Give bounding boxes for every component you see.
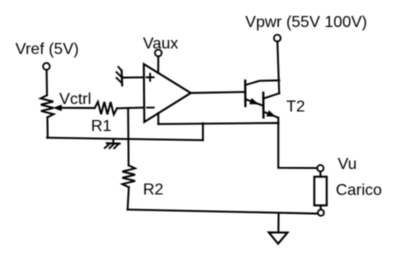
bottom rail wire bbox=[128, 210, 318, 214]
feedback wire to emitter node bbox=[158, 123, 278, 124]
plus sign bbox=[147, 74, 154, 81]
wiper arrow of potentiometer bbox=[61, 107, 95, 109]
wire Vaux to op-amp top bbox=[157, 57, 159, 73]
terminal Vref bbox=[43, 63, 50, 70]
wire op-amp output to T1 base bbox=[191, 92, 245, 93]
potentiometer P1 bbox=[41, 95, 54, 117]
wire Vpwr rail bbox=[277, 42, 279, 94]
lower rail wire bbox=[47, 138, 203, 141]
vertical wire feedback to lower rail bbox=[202, 123, 204, 140]
wire Vref to potentiometer bbox=[46, 70, 48, 95]
T2 emitter bbox=[264, 112, 279, 118]
node A vertical wire to R2 bbox=[127, 108, 130, 165]
svg-text:R1: R1 bbox=[91, 118, 112, 135]
terminal Vpwr bbox=[274, 35, 281, 42]
earth ground at + input bbox=[117, 67, 123, 86]
svg-text:Vpwr (55V 100V): Vpwr (55V 100V) bbox=[245, 14, 367, 31]
op-amp U1 bbox=[144, 64, 191, 122]
svg-text:Carico: Carico bbox=[336, 182, 382, 199]
wire ground to + input bbox=[122, 76, 144, 78]
svg-text:Vu: Vu bbox=[338, 156, 357, 173]
wire load bottom bbox=[320, 205, 322, 209]
svg-text:T2: T2 bbox=[286, 98, 305, 115]
resistor R1 bbox=[95, 102, 117, 115]
svg-text:Vctrl: Vctrl bbox=[59, 91, 91, 108]
T1 emitter bbox=[245, 99, 263, 106]
ground stub bbox=[277, 213, 279, 232]
wire potentiometer bottom bbox=[46, 117, 48, 137]
op-amp bottom pin stub bbox=[157, 113, 159, 124]
wire emitter to Vu node bbox=[278, 118, 317, 168]
transistor T1 base bar bbox=[244, 81, 246, 106]
T1 collector bbox=[245, 80, 279, 85]
earth ground below lower rail bbox=[105, 139, 120, 148]
minus sign bbox=[147, 107, 154, 109]
terminal load bottom bbox=[318, 210, 324, 216]
svg-text:Vref (5V): Vref (5V) bbox=[15, 41, 78, 58]
wire R1 to inverting input bbox=[117, 107, 144, 110]
T2 collector bbox=[263, 93, 279, 98]
wire R2 to bottom rail bbox=[128, 187, 129, 209]
transistor T2 base bar bbox=[262, 93, 264, 118]
terminal Vu bbox=[317, 165, 323, 171]
terminal Vaux bbox=[155, 50, 162, 57]
wire Vu to load bbox=[319, 172, 321, 177]
svg-text:R2: R2 bbox=[143, 182, 164, 199]
resistor R2 bbox=[122, 165, 135, 187]
ground symbol bbox=[269, 232, 288, 243]
load Carico rectangle bbox=[314, 177, 326, 206]
